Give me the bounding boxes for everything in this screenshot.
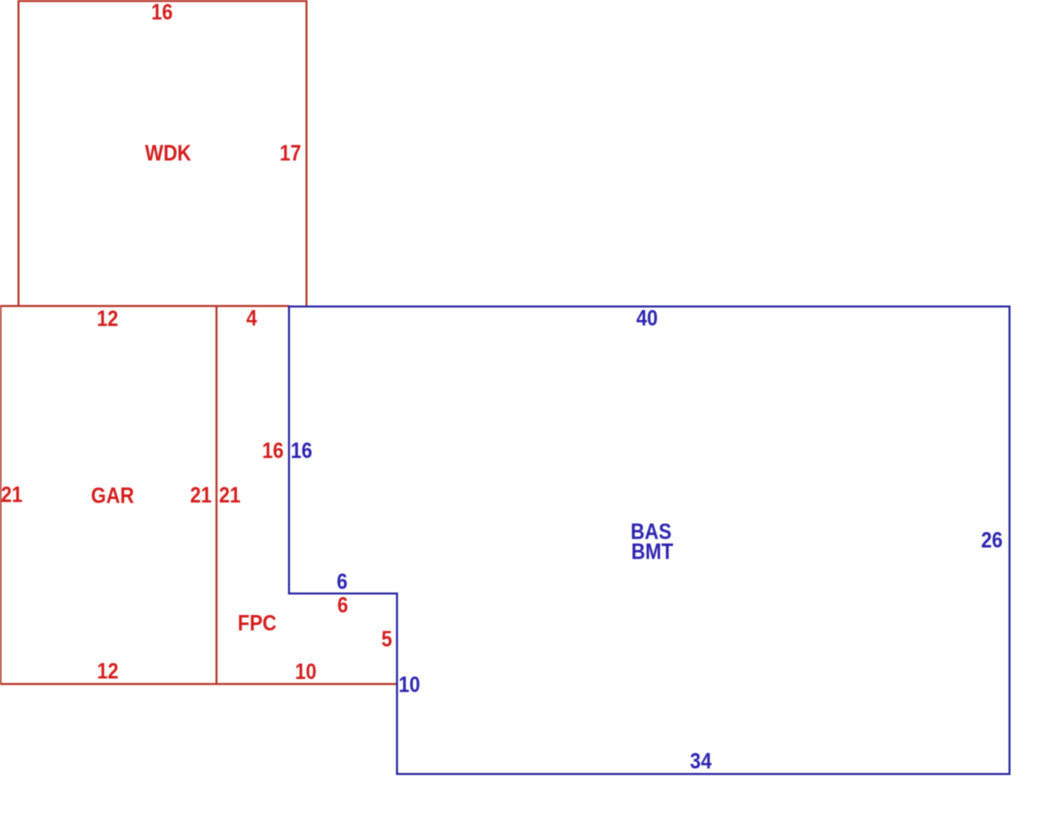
- svg-text:4: 4: [246, 307, 257, 331]
- svg-text:16: 16: [262, 439, 284, 463]
- svg-text:40: 40: [636, 306, 658, 330]
- svg-text:FPC: FPC: [238, 612, 277, 636]
- svg-text:BMT: BMT: [631, 540, 673, 564]
- svg-text:21: 21: [1, 483, 23, 507]
- svg-text:12: 12: [97, 307, 119, 331]
- room WDK outline (red, open bottom): [19, 1, 307, 306]
- wall: GAR/FPC top (red): [1, 305, 290, 307]
- wall: GAR left (red): [0, 305, 2, 685]
- wall: GAR/FPC divider (red): [216, 306, 218, 684]
- svg-text:10: 10: [399, 673, 421, 697]
- svg-text:21: 21: [190, 483, 212, 507]
- svg-text:16: 16: [291, 439, 313, 463]
- room BAS BMT outline (blue polygon): [289, 307, 1010, 775]
- svg-text:10: 10: [295, 660, 317, 684]
- svg-text:WDK: WDK: [145, 141, 191, 165]
- svg-text:26: 26: [981, 528, 1003, 552]
- svg-text:34: 34: [690, 749, 712, 773]
- wall: GAR/FPC bottom (red): [1, 683, 398, 685]
- svg-text:GAR: GAR: [91, 484, 134, 508]
- svg-text:17: 17: [280, 141, 302, 165]
- svg-text:16: 16: [151, 0, 173, 24]
- svg-text:5: 5: [381, 627, 392, 651]
- svg-text:21: 21: [219, 483, 241, 507]
- svg-text:12: 12: [97, 659, 119, 683]
- svg-text:6: 6: [337, 593, 348, 617]
- svg-text:6: 6: [337, 570, 348, 594]
